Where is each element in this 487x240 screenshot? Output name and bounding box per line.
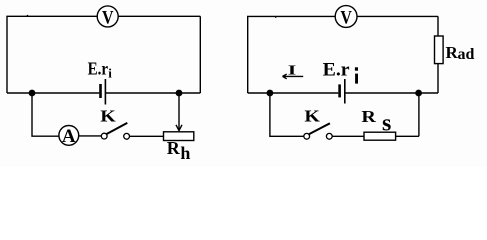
svg-text:R: R: [167, 138, 181, 158]
svg-text:V: V: [102, 8, 114, 29]
svg-text:K: K: [100, 107, 116, 126]
svg-text:s: s: [382, 110, 391, 136]
svg-text:i: i: [108, 66, 112, 81]
svg-text:K: K: [304, 107, 320, 126]
svg-text:h: h: [180, 143, 190, 163]
svg-text:E.r: E.r: [323, 60, 351, 81]
svg-text:E.r: E.r: [88, 58, 109, 78]
svg-text:R: R: [361, 107, 376, 126]
svg-text:V: V: [340, 8, 352, 29]
svg-text:ad: ad: [458, 46, 475, 63]
svg-text:A: A: [62, 126, 76, 147]
